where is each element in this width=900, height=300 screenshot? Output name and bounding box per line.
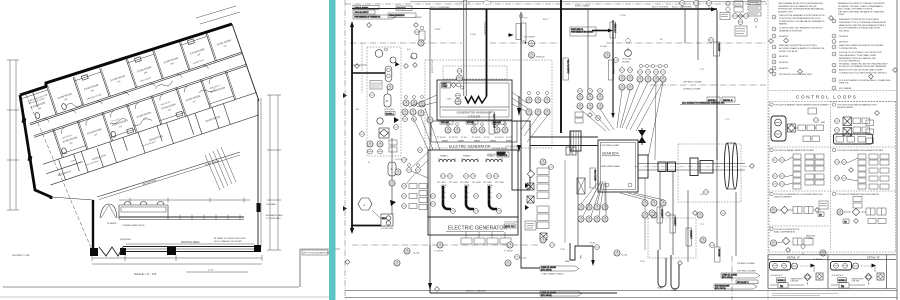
svg-text:GEAR BOX: GEAR BOX [602, 152, 620, 156]
svg-text:THE EXCITER GENERATOR IS PROVI: THE EXCITER GENERATOR IS PROVIDED WITH [779, 14, 825, 17]
svg-text:M.S. 4" LO SUPPLY: M.S. 4" LO SUPPLY [567, 60, 569, 74]
svg-text:STEEL.: STEEL. [838, 14, 845, 16]
svg-text:WAITING AREA: WAITING AREA [181, 240, 200, 244]
svg-text:2"-150#: 2"-150# [470, 34, 476, 36]
svg-text:GENERATOR SUPPLIER: GENERATOR SUPPLIER [779, 29, 802, 32]
svg-text:DELETED: DELETED [839, 41, 849, 43]
svg-text:KEY SPARES: KEY SPARES [839, 87, 852, 90]
left wall jambs [22, 118, 27, 124]
svg-text:DELETED: DELETED [779, 62, 789, 64]
svg-text:DETAIL "B": DETAIL "B" [867, 256, 880, 260]
svg-text:PT 103: PT 103 [461, 137, 467, 139]
header flag: lube oil supply [353, 6, 379, 10]
bottom border lines [345, 290, 897, 292]
U-tube 1 [658, 250, 666, 287]
extra partial walls [32, 38, 219, 181]
pipe flag on x521 [516, 14, 526, 41]
svg-text:POWER: POWER [806, 238, 813, 240]
svg-text:24 SEATS: 24 SEATS [107, 222, 117, 225]
room labels [31, 39, 254, 175]
svg-text:A: A [364, 203, 366, 207]
header tap bubbles [680, 1, 712, 10]
svg-text:THE INTERNAL MONITORS IS INSTR: THE INTERNAL MONITORS IS INSTRUMENTS A [778, 2, 824, 5]
svg-text:ELECTRIC GENERATOR: ELECTRIC GENERATOR [449, 145, 491, 149]
exciter bubbles cluster [521, 97, 550, 142]
wire bundle cooler to bus [512, 92, 533, 115]
door arcs left of counter [100, 204, 117, 218]
svg-text:MODEL 2: MODEL 2 [386, 114, 394, 116]
control valve V1 [379, 128, 389, 138]
generator label band [428, 217, 518, 235]
loop cell 5: cooling air temp [770, 192, 828, 216]
svg-text:HYDRAULIC GUARD FILLING NOT RE: HYDRAULIC GUARD FILLING NOT REQUIRED SEL… [839, 62, 889, 65]
vertical pipe x717 [716, 10, 718, 160]
top-right small dims [196, 6, 236, 18]
svg-text:M.S. LO SUPPLY: M.S. LO SUPPLY [612, 62, 614, 74]
right drain flags [721, 273, 760, 279]
svg-text:THE VENT LINE SHALL BE MADE OF: THE VENT LINE SHALL BE MADE OF STAINLESS [838, 10, 885, 13]
corridor walls [30, 50, 248, 123]
svg-text:RTD WIRE: RTD WIRE [718, 249, 720, 256]
svg-text:1 1/2": 1 1/2" [700, 69, 705, 71]
vertical pipe x613 [612, 20, 614, 115]
svg-text:SPARE: SPARE [490, 140, 497, 143]
fan tag circles [447, 92, 549, 126]
svg-text:1 1/2": 1 1/2" [523, 18, 528, 20]
bottom notes line [772, 293, 838, 295]
bubbles lower mid [649, 210, 655, 216]
air flow row: cold/hot air flags [440, 121, 505, 125]
svg-text:LUBE OIL SUPPLY: LUBE OIL SUPPLY [355, 7, 370, 9]
svg-text:VESTIBULE: VESTIBULE [120, 239, 132, 241]
svg-text:MODEL 2" CHANGER: MODEL 2" CHANGER [466, 290, 487, 293]
sheet border bottom [3, 286, 299, 288]
svg-text:2" DR: 2" DR [560, 249, 565, 251]
svg-text:PT ELECTRIC INSTRUMENTATION BL: PT ELECTRIC INSTRUMENTATION BLOCKS , [779, 17, 822, 20]
svg-text:(DTL 150 M): (DTL 150 M) [722, 277, 733, 279]
stator temp bubbles row [441, 174, 446, 179]
pipe flag on x613 [610, 22, 617, 38]
svg-text:SHEET 36: SHEET 36 [839, 83, 849, 85]
svg-text:TO CURB WALL: TO CURB WALL [266, 217, 282, 220]
auto start box [442, 82, 451, 88]
balloon right [754, 18, 758, 28]
teardrop marker [626, 39, 630, 52]
svg-text:1" VENT: 1" VENT [414, 17, 422, 19]
dash-dot zone line y43 left [350, 42, 462, 44]
zone dash-dot y245 [352, 244, 538, 246]
svg-text:TYPICAL FOR GENERATOR ACCELERO: TYPICAL FOR GENERATOR ACCELEROMETER [837, 193, 880, 196]
flow arrows right column [525, 205, 529, 210]
svg-text:IMMEDIATELY WITHOUT WAITING TH: IMMEDIATELY WITHOUT WAITING THE [839, 57, 876, 60]
svg-text:M.S. NOZZLE TO HYDRAULIC CONTR: M.S. NOZZLE TO HYDRAULIC CONTROL CPL [682, 102, 726, 105]
vertical pipe x685 [684, 9, 686, 44]
svg-text:G.75 KW 2.08 M: G.75 KW 2.08 M [504, 222, 518, 224]
phase 3 winding coil [486, 159, 502, 162]
model2 dark flag [487, 152, 506, 157]
header flag: performance banner [353, 15, 396, 19]
phase 2 winding coil [462, 159, 478, 162]
svg-text:70KG 7.5: 70KG 7.5 [498, 155, 508, 157]
svg-text:G.75 KW 2.08M: G.75 KW 2.08M [381, 228, 394, 230]
control loops header [769, 90, 896, 92]
svg-text:1 HR WALL: 1 HR WALL [266, 203, 277, 206]
starting oil pump box [735, 26, 747, 36]
svg-text:M.S. 4" CON B.W.: M.S. 4" CON B.W. [652, 7, 669, 9]
hatched block under pedestal [577, 178, 585, 194]
lower terminal stack [537, 206, 549, 229]
property line diagonal [26, 95, 92, 250]
svg-text:M.L.D.+T CONDENSER: M.L.D.+T CONDENSER [430, 7, 450, 9]
side diamonds notes [769, 39, 774, 44]
lube oil drain flag 1 [540, 266, 579, 272]
svg-text:ELU: ELU [382, 218, 387, 220]
svg-text:LOW SPEED SHAFT: LOW SPEED SHAFT [601, 144, 621, 147]
main vertical pipe x521 [520, 12, 522, 242]
hex symbol left [358, 198, 372, 210]
bottom sheet line 2 [0, 296, 329, 298]
room numbers [38, 45, 242, 151]
svg-text:3/4": 3/4" [660, 39, 663, 41]
windings cooler label [440, 106, 509, 108]
svg-text:CORNER GUARD NOTE: CORNER GUARD NOTE [122, 224, 145, 227]
svg-text:PT 107: PT 107 [506, 137, 512, 139]
svg-text:TIL-XXL: TIL-XXL [621, 255, 628, 257]
lube oil drain flag 2 [540, 291, 582, 297]
frame dash-dot left [344, 0, 346, 300]
main vertical pipe x430 [429, 9, 431, 246]
start oil label box [570, 27, 596, 36]
svg-text:M.S. 2": M.S. 2" [543, 19, 549, 21]
pipe flag on x588 [590, 168, 596, 188]
left outside dims [9, 60, 11, 210]
vertical drop x673 [672, 171, 674, 255]
svg-text:FOLLOW THRESHOLD: FOLLOW THRESHOLD [839, 61, 861, 63]
header flag: cool oil supply [353, 10, 375, 14]
svg-text:CONTINUOUSLY 100 THE PURGE PT5: CONTINUOUSLY 100 THE PURGE PT55 LINE MUL… [839, 72, 888, 74]
svg-text:M.S. 4" LO RET: M.S. 4" LO RET [594, 170, 596, 181]
shaft support posts [566, 147, 570, 155]
vertical pipe x698 [697, 0, 699, 60]
svg-text:COOL 71.5: COOL 71.5 [505, 226, 515, 228]
svg-text:OIL BRG: OIL BRG [622, 62, 630, 64]
double corridor lines [30, 52, 248, 125]
svg-text:TOPPING RETURN: TOPPING RETURN [839, 48, 857, 50]
dash-dot zone line y43 far right [606, 42, 766, 44]
pipe flag on x561 [563, 58, 569, 80]
grid bubbles on dim line [11, 1, 231, 86]
fixtures in rooms [28, 39, 215, 160]
wires from gov to generator [409, 95, 440, 151]
fan wires to gearbox [580, 82, 663, 160]
control pill valve [388, 162, 396, 176]
right border [896, 0, 898, 300]
svg-text:ENTRANCE WALL: ENTRANCE WALL [266, 214, 284, 217]
heavy bus x561 [560, 0, 562, 133]
enclosure boundary y85 [650, 84, 766, 86]
svg-text:2PT-1 KW2: 2PT-1 KW2 [449, 182, 458, 184]
tiny note smudges [28, 40, 231, 177]
cooler outer box [437, 80, 512, 120]
svg-text:2PT-1 KW1: 2PT-1 KW1 [437, 182, 446, 184]
start skid boxes [726, 1, 761, 17]
squiggle leaders [66, 58, 219, 145]
output shaft [638, 163, 745, 165]
phase labels [440, 155, 495, 158]
svg-text:PROVISION FOR EQUILIBRE VENT: PROVISION FOR EQUILIBRE VENT [779, 74, 813, 76]
valve cross cluster [733, 14, 749, 25]
svg-text:TIL-XXL: TIL-XXL [413, 253, 420, 255]
cooler feed dashed box [443, 66, 507, 79]
dim lines above top wall [17, 16, 228, 87]
diamond left of stack [527, 170, 534, 177]
CT hook phase3 [489, 186, 497, 209]
svg-text:2" TUR IP: 2" TUR IP [504, 251, 514, 253]
svg-text:M.S. LO COOLER: M.S. LO COOLER [431, 60, 433, 74]
svg-text:PT 101 TE: PT 101 TE [437, 137, 446, 139]
svg-text:ACQUIRED CHAIN OF ARMOR TO ENS: ACQUIRED CHAIN OF ARMOR TO ENSURE THE [779, 47, 825, 50]
vertical pipe x588 [587, 9, 589, 101]
svg-text:2" TUR IP: 2" TUR IP [434, 251, 444, 253]
fan plenum box [431, 121, 517, 142]
svg-text:FLUID: FLUID [590, 243, 596, 245]
detail A bearing [770, 262, 824, 289]
lower-left wall jog [92, 200, 94, 252]
generator shaft to gearbox [530, 136, 598, 138]
svg-text:FOLLOW THRESHOLD FOR AT LEAST: FOLLOW THRESHOLD FOR AT LEAST FIVE [839, 27, 880, 30]
solenoid valve M [384, 94, 391, 107]
bubbles in model2 box [370, 93, 375, 98]
heavy arrow into x613 [592, 30, 608, 32]
svg-text:3" DR: 3" DR [640, 261, 645, 263]
black flow arrow [390, 200, 396, 206]
reception diagonal front [97, 152, 240, 197]
svg-text:3/4" TURB BP: 3/4" TURB BP [524, 37, 536, 39]
svg-text:M.S. 4" COOLER: M.S. 4" COOLER [483, 22, 485, 35]
svg-text:2PT-1 KW5: 2PT-1 KW5 [483, 182, 492, 184]
enclosure bubbles lower row [367, 141, 373, 147]
svg-text:G.E 460 M 4": G.E 460 M 4" [771, 275, 783, 277]
bubbles between model2 and gov [387, 84, 393, 90]
svg-text:PROPERTY LINE: PROPERTY LINE [12, 255, 30, 257]
turbine vertical flag [714, 42, 721, 56]
svg-text:REACTIVE POWER REGULATOR ZIG Z: REACTIVE POWER REGULATOR ZIG ZPRESET [839, 44, 884, 47]
coupling drain drop [644, 178, 646, 250]
control loops vertical split [830, 101, 896, 103]
svg-text:IN EDGE OF 141 POWER LOGIC DET: IN EDGE OF 141 POWER LOGIC DETECTION [839, 52, 882, 54]
top header pipe [352, 8, 430, 10]
svg-text:SEAL: SEAL [565, 260, 570, 263]
svg-text:DELETED: DELETED [779, 68, 789, 70]
bubbles left of generator [431, 194, 436, 199]
svg-text:DRAIN: DRAIN [671, 289, 677, 292]
svg-text:LUBE UNIT: LUBE UNIT [852, 281, 860, 283]
svg-text:2'-150#: 2'-150# [600, 46, 608, 48]
bubbles column left mid [418, 148, 423, 153]
gear mesh bowtie [638, 130, 646, 143]
svg-text:DETAIL "A": DETAIL "A" [787, 256, 800, 260]
svg-text:COOLER: COOLER [468, 115, 482, 119]
coupling pair [658, 162, 666, 172]
svg-text:PT 105: PT 105 [484, 137, 490, 139]
scattered pipe size labels [356, 15, 730, 263]
counter band [119, 216, 244, 218]
svg-text:SINGLE ELEMENT: SINGLE ELEMENT [837, 107, 854, 109]
coupling hub 1 [638, 155, 648, 178]
drain bubbles [437, 242, 443, 248]
svg-text:THE EMERGENCY PUMP SHALL START: THE EMERGENCY PUMP SHALL START [839, 54, 877, 57]
svg-text:SPARE: SPARE [442, 140, 449, 143]
svg-text:G.75 LPM A: G.75 LPM A [384, 108, 394, 111]
jambs [90, 248, 98, 256]
svg-text:2" LO: 2" LO [725, 119, 730, 121]
svg-text:PSL: PSL [356, 109, 359, 111]
svg-text:ELECTRIC GENERATOR: ELECTRIC GENERATOR [448, 226, 507, 232]
CT bubbles [451, 194, 456, 199]
flywheel sheave [724, 143, 729, 189]
svg-text:PT 104 TE: PT 104 TE [472, 137, 481, 139]
svg-text:DELETED: DELETED [779, 56, 789, 58]
transformer X-boxes column [527, 183, 547, 240]
svg-text:DEPT OF BUILDING APPROVAL: DEPT OF BUILDING APPROVAL [303, 252, 330, 255]
svg-text:PHASE 1: PHASE 1 [440, 155, 448, 158]
small diamond right of flywheel [750, 164, 755, 169]
bottom wall double line [123, 246, 256, 248]
detail b flags [680, 97, 740, 105]
svg-text:AND IT SHALL NOT HAVE POCKETS.: AND IT SHALL NOT HAVE POCKETS. [838, 8, 873, 11]
fan bubbles row [445, 127, 451, 133]
rect stack column 2 [419, 184, 427, 210]
dash-dot zone line y43 right [490, 42, 560, 44]
exciter column [512, 121, 530, 190]
flywheel drop [735, 192, 737, 256]
right outside dims [269, 95, 271, 250]
svg-text:RUNNING TEST: RUNNING TEST [778, 11, 794, 13]
right vertical wall [257, 98, 259, 247]
dashed enclosure lower mid [648, 218, 696, 258]
svg-text:NOISE TO 85 dB 4K: NOISE TO 85 dB 4K [779, 51, 798, 53]
bubble pair under shaft [540, 159, 546, 165]
loop cell 4: axial displacement [832, 148, 889, 189]
pedestal drain drop [577, 151, 579, 245]
svg-text:DELETED: DELETED [839, 36, 849, 38]
enclosure corner dash [731, 256, 733, 300]
svg-text:AMOUNT OF FLOW ON THOSE LINES: AMOUNT OF FLOW ON THOSE LINES COMES [839, 69, 883, 72]
third row walls bottom-left [43, 146, 103, 185]
made to order box [525, 221, 536, 230]
svg-text:UPPER-100: UPPER-100 [536, 57, 545, 59]
svg-text:PHASE 2: PHASE 2 [463, 155, 471, 158]
U-seal loop [570, 243, 593, 262]
svg-text:SCALE = 2 - 1'0": SCALE = 2 - 1'0" [134, 272, 157, 276]
CT hook phase1 [443, 186, 451, 209]
svg-text:DRAIN: DRAIN [657, 287, 663, 290]
svg-text:TYPICAL FOR BEARING TEMP ELEME: TYPICAL FOR BEARING TEMP ELEMENTS SINGLE… [774, 104, 830, 107]
pump P1 [375, 50, 383, 58]
svg-text:21'-10": 21'-10" [208, 270, 214, 272]
vertical drop x660 [659, 171, 661, 250]
right wall rotated [232, 24, 259, 101]
gear box body [598, 140, 638, 192]
loop cell 7: axial compensation [770, 227, 816, 254]
bubbles below gen box small boxes [461, 232, 511, 244]
svg-text:FOR SOUTH ARMOR OF BRUSH TALKS: FOR SOUTH ARMOR OF BRUSH TALKS , PLEASE … [839, 79, 891, 82]
svg-text:LUBE OIL DRAIN: LUBE OIL DRAIN [541, 266, 556, 269]
small box in model2 [360, 132, 365, 137]
svg-text:M: M [386, 99, 388, 103]
svg-text:FMR: FMR [821, 122, 826, 124]
svg-text:(DTL 150 M): (DTL 150 M) [715, 288, 726, 290]
svg-text:FILLING BY OIL DRAINED FROM HS: FILLING BY OIL DRAINED FROM HSPT BEARING… [839, 65, 887, 68]
vertical flag x609 [609, 60, 614, 80]
electric generator dashed enclosure (upper) [425, 60, 552, 148]
svg-text:G.75 KW 1.06 M: G.75 KW 1.06 M [492, 148, 507, 150]
duplex filter pill [385, 66, 392, 82]
frame zone markers [343, 93, 347, 98]
svg-text:SPARE: SPARE [474, 140, 481, 143]
arrow black [394, 117, 399, 123]
cooler heating element zigzag [465, 97, 487, 104]
bubble on control line [389, 180, 395, 186]
svg-text:PT 102 TE: PT 102 TE [449, 137, 458, 139]
bearing pedestal hatched [570, 131, 581, 151]
long bottom drain line [430, 292, 617, 294]
winding leads [439, 158, 502, 162]
mid bubbles on x430 [427, 117, 433, 123]
under-shaft vertical [564, 160, 566, 243]
svg-text:2PT-1 KW6: 2PT-1 KW6 [495, 182, 504, 184]
bubble+box column 1 [402, 184, 407, 189]
loop cell 2: excitation bearings [832, 103, 879, 144]
bubble pair near x521 mid [528, 40, 534, 46]
door arcs along corridor [43, 63, 214, 137]
svg-text:PRESSURE PT750 1 POSTER AND P: PRESSURE PT750 1 POSTER AND PRESSURE AT [839, 21, 887, 24]
partition double lines top row [40, 30, 236, 157]
hook hatches [442, 187, 492, 200]
svg-text:HEATER: HEATER [779, 23, 788, 26]
svg-text:TYPICAL FOR RADIAL VIBRATIONS: TYPICAL FOR RADIAL VIBRATIONS PROBES [774, 149, 815, 152]
svg-text:OF WATER, DIRT AND OTHER CONTA: OF WATER, DIRT AND OTHER CONTAMINANTS, [838, 5, 884, 8]
vertical flag x660 [657, 207, 664, 223]
svg-text:SUPPLIED BUT 48 HRS AFTER AN M: SUPPLIED BUT 48 HRS AFTER AN MECHANICAL [778, 8, 825, 11]
svg-text:OFF ENCLOSURE: OFF ENCLOSURE [683, 82, 702, 84]
svg-text:EMERGENCY PUMP STOPS FOR HONES: EMERGENCY PUMP STOPS FOR HONEST [839, 19, 880, 21]
svg-text:2'B' DIA 36" C: 2'B' DIA 36" C [737, 281, 749, 284]
svg-text:LUBE UNIT: LUBE UNIT [791, 281, 799, 283]
svg-text:ON ENCLOSURE: ON ENCLOSURE [737, 263, 755, 265]
sheet border right [299, 249, 301, 287]
cross wires to generator [406, 152, 428, 184]
main vertical pipe x487 [486, 9, 488, 97]
ELU box [381, 214, 393, 226]
gearbox lower-left bubble fan [578, 181, 608, 222]
svg-text:POWER SUPPLY 145 VAN 64A 16V G: POWER SUPPLY 145 VAN 64A 16V GENERATOR [779, 20, 825, 23]
svg-text:(DTL 150 M): (DTL 150 M) [541, 295, 552, 297]
svg-text:COOL OIL SUPPLY: COOL OIL SUPPLY [355, 12, 370, 14]
svg-text:AXIAL COMPENSATION: AXIAL COMPENSATION [774, 231, 796, 234]
bottom dims [92, 257, 262, 259]
svg-text:CONTROL LOOPS: CONTROL LOOPS [796, 95, 858, 100]
main vertical pipe x465 [464, 0, 466, 96]
svg-text:(DTL 150 M): (DTL 150 M) [541, 270, 552, 272]
second dim row [186, 271, 248, 273]
svg-text:NEAR BHD IS EQUIPPED WITH FITT: NEAR BHD IS EQUIPPED WITH FITTING [779, 44, 817, 47]
svg-text:14 SWITCH WILL 66V THAILERTS O: 14 SWITCH WILL 66V THAILERTS ON SITE BY [779, 27, 823, 30]
CT hook phase2 [466, 186, 474, 209]
vertical drop x688 [687, 190, 689, 262]
svg-text:AT LEAST 10 CEILING SECTIONS: AT LEAST 10 CEILING SECTIONS [214, 237, 246, 240]
pipe flag on x487 [489, 112, 495, 134]
